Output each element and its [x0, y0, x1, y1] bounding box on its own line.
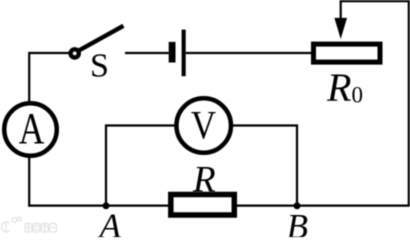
- svg-text:R: R: [326, 65, 351, 110]
- svg-text:A: A: [98, 207, 122, 237]
- svg-text:A: A: [19, 104, 45, 153]
- svg-text:B: B: [287, 207, 308, 237]
- svg-text:S: S: [90, 47, 109, 84]
- svg-text:R: R: [192, 159, 216, 200]
- svg-text:0: 0: [352, 83, 364, 108]
- svg-text:V: V: [191, 102, 216, 147]
